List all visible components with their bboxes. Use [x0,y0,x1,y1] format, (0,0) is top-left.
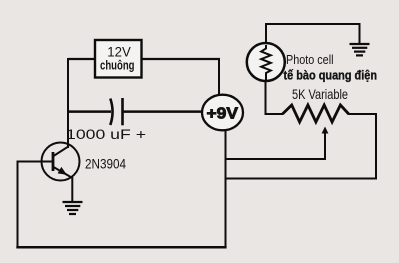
transistor Q1 2N3904 [42,143,127,181]
wire [265,23,361,25]
wire [123,110,204,113]
wire [218,58,220,96]
wire [226,158,327,160]
voltage source B1 12V chuong [95,40,142,78]
wire [225,129,227,248]
wire [324,132,326,160]
wire [68,58,97,60]
svg-text:1000 uF +: 1000 uF + [66,126,146,142]
node +9V [202,95,243,131]
wiper arrow [322,127,329,134]
svg-text:+9V: +9V [207,106,239,123]
wire [16,246,226,249]
wire [265,79,267,115]
svg-text:5K Variable: 5K Variable [292,86,348,102]
wire [375,113,377,180]
wire [67,58,69,148]
wire [348,113,377,115]
ground [350,23,370,55]
potentiometer 5K Variable [283,86,349,134]
wire [18,161,54,163]
svg-text:chuông: chuông [100,57,135,72]
wire [265,113,284,115]
svg-text:Photo cell: Photo cell [286,52,334,67]
wire [71,177,73,202]
ground [63,202,83,214]
photo cell PC1 [247,43,377,82]
wire [67,110,111,113]
svg-text:tế bào quang điện: tế bào quang điện [284,68,378,82]
wire [226,178,378,180]
svg-text:2N3904: 2N3904 [85,156,126,172]
wire [140,58,220,60]
capacitor C1 1000 uF [66,98,146,142]
wire [17,161,19,249]
wire [265,23,267,45]
